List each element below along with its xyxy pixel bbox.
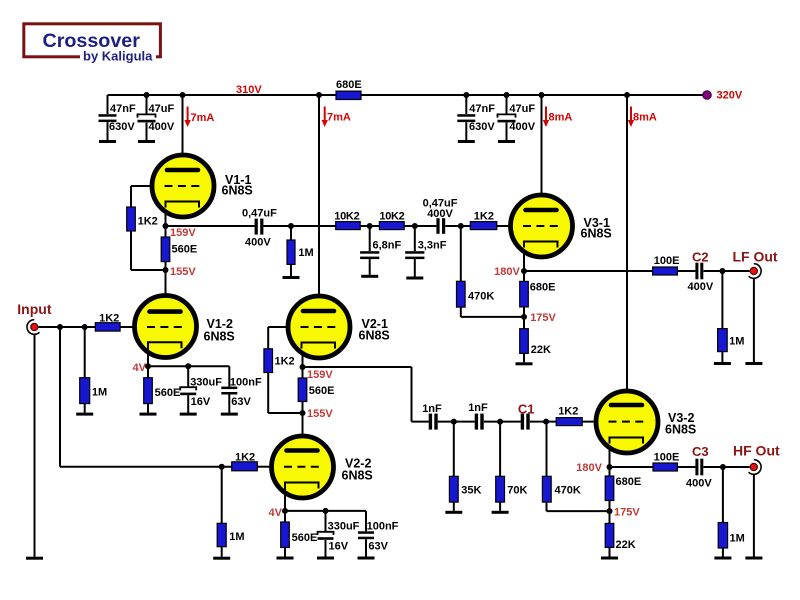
tube V3-1 plate <box>526 208 557 213</box>
capacitor C2 <box>695 263 698 280</box>
capacitor 0,47uF/400V LF <box>255 219 258 235</box>
resistor 1K2 V2-2 grid <box>232 462 258 471</box>
svg-text:180V: 180V <box>576 462 602 474</box>
ground 330uF V1-2 <box>180 413 197 416</box>
svg-text:560E: 560E <box>155 387 181 399</box>
svg-text:47uF: 47uF <box>149 103 175 115</box>
svg-text:3,3nF: 3,3nF <box>418 240 447 252</box>
node 175V V3-2 <box>607 508 613 514</box>
wire LF filter line A <box>263 225 436 227</box>
resistor 470K HF <box>542 476 551 502</box>
wire 330uF V2-2 top lead <box>325 511 327 531</box>
ground 1M V2-2 <box>213 557 230 560</box>
svg-text:1nF: 1nF <box>422 403 442 415</box>
svg-text:C1: C1 <box>518 402 535 417</box>
junction rail/V3-2 <box>624 92 630 98</box>
capacitor 330uF/16V V1-2 <box>180 387 196 390</box>
resistor 70K <box>496 476 505 502</box>
wire 4V V2-2 to caps <box>285 510 366 512</box>
node 155V V1 <box>163 267 169 273</box>
8mA #2 current arrow <box>630 107 632 122</box>
wire input to 1K2 <box>39 326 96 328</box>
svg-text:560E: 560E <box>292 532 318 544</box>
svg-text:310V: 310V <box>236 84 262 96</box>
svg-text:1nF: 1nF <box>468 402 488 414</box>
svg-text:LF Out: LF Out <box>733 249 778 265</box>
svg-text:1K2: 1K2 <box>275 356 295 368</box>
wire 1M LF leads <box>721 271 723 362</box>
svg-text:175V: 175V <box>614 507 640 519</box>
resistor 22K V3-1 <box>520 329 529 354</box>
svg-text:630V: 630V <box>469 121 495 133</box>
junction 70K <box>497 419 503 425</box>
capacitor 1nF #2 <box>475 414 478 430</box>
ground HF Out <box>745 557 762 560</box>
svg-text:8mA: 8mA <box>633 112 657 124</box>
wire 470K V3-1 leads <box>460 226 462 317</box>
resistor 680E V3-2 <box>605 476 614 501</box>
ground 47nF-R <box>458 140 475 143</box>
svg-text:400V: 400V <box>149 121 175 133</box>
wire input bus down <box>59 327 61 467</box>
wire V2-1 grid lead <box>268 326 286 328</box>
ground LF Out <box>745 362 762 365</box>
wire V3-1 cathode / 680E / 22K stack <box>523 242 525 362</box>
svg-text:63V: 63V <box>231 396 251 408</box>
svg-text:6N8S: 6N8S <box>222 184 253 198</box>
tube V1-2 plate <box>150 309 181 314</box>
capacitor 47uF-L 47uF/400V <box>138 114 156 117</box>
wire HF Out shield down <box>753 474 755 556</box>
svg-text:680E: 680E <box>530 282 556 294</box>
junction input/1M <box>82 324 88 330</box>
title box <box>24 24 161 57</box>
node 4V V1-2 <box>145 363 151 369</box>
wire to 155V node V2 <box>268 412 302 414</box>
junction 1M mid <box>288 223 294 229</box>
svg-text:100E: 100E <box>654 452 680 464</box>
svg-text:1M: 1M <box>298 247 313 259</box>
svg-text:630V: 630V <box>109 121 135 133</box>
junction 35K <box>451 419 457 425</box>
wire 1K2 to V2-2 grid <box>257 466 271 468</box>
wire 100nF V2-2 top lead <box>365 511 367 531</box>
wire 3,3nF top lead <box>414 226 416 251</box>
ground 22K V3-2 <box>601 557 618 560</box>
wire 6,8nF top lead <box>369 226 371 251</box>
svg-text:320V: 320V <box>717 90 743 102</box>
capacitor C1 <box>521 414 524 430</box>
resistor 1M V2-2 <box>217 523 226 546</box>
svg-text:330uF: 330uF <box>328 521 360 533</box>
ground 47uF-L <box>138 140 155 143</box>
svg-text:680E: 680E <box>336 79 362 91</box>
junction 330uF V2-2 <box>323 508 329 514</box>
svg-text:70K: 70K <box>507 485 527 497</box>
ground 22K V3-1 <box>516 362 533 365</box>
svg-text:159V: 159V <box>307 369 333 381</box>
tube V3-1 envelope <box>511 195 573 257</box>
wire to V3-1 grid <box>445 225 509 227</box>
tube V2-2 envelope <box>272 436 334 498</box>
wire V2-1 cathode / 560E / V2-2 anode <box>302 342 304 451</box>
HF Out terminal <box>749 460 761 475</box>
ground 35K <box>445 511 462 514</box>
wire 1M input leads <box>84 327 86 413</box>
node 155V V2 <box>300 410 306 416</box>
tube V3-2 cathode <box>610 438 644 444</box>
wire 47uF-L top lead <box>146 95 148 114</box>
tube V1-2 envelope <box>135 296 197 358</box>
node 320V terminal dot <box>703 91 712 100</box>
svg-text:159V: 159V <box>170 227 196 239</box>
svg-text:1K2: 1K2 <box>474 211 494 223</box>
junction rail/V2-1 <box>316 92 322 98</box>
junction rail/47nF-R <box>463 92 469 98</box>
junction rail/V1-1 <box>180 92 186 98</box>
svg-text:175V: 175V <box>530 312 556 324</box>
ground 330uF V2-2 <box>317 557 334 560</box>
ground 47uF-R <box>498 140 515 143</box>
tube V3-1 grid <box>523 225 559 227</box>
wire 1M HF leads <box>722 467 724 557</box>
node 175V V3-1 <box>521 314 527 320</box>
wire 330uF V1-2 bottom lead <box>187 395 189 412</box>
wire V2-2 cathode / 560E <box>284 483 286 557</box>
node 180V V3-1 <box>521 268 527 274</box>
resistor 22K V3-2 <box>605 523 614 547</box>
resistor 1K2 V1-2 grid <box>95 323 120 331</box>
svg-text:4V: 4V <box>269 507 283 519</box>
ground 1M mid <box>283 276 300 279</box>
ground 1M LF <box>714 362 731 365</box>
svg-text:6N8S: 6N8S <box>359 328 390 342</box>
svg-text:63V: 63V <box>368 541 388 553</box>
wire input shield down <box>34 335 36 557</box>
svg-text:1M: 1M <box>92 386 107 398</box>
tube V1-1 grid <box>165 185 201 187</box>
wire V3-1 anode riser <box>541 95 543 210</box>
tube V1-1 cathode <box>166 202 200 208</box>
node 180V V3-2 <box>607 464 613 470</box>
tube V1-1 envelope <box>152 155 214 217</box>
svg-text:560E: 560E <box>172 244 198 256</box>
svg-text:6N8S: 6N8S <box>665 423 696 437</box>
svg-text:HF Out: HF Out <box>733 443 780 459</box>
svg-text:7mA: 7mA <box>191 112 215 124</box>
wire 70K leads <box>499 422 501 511</box>
wire 47nF-L top lead <box>107 95 109 114</box>
junction rail/47uF-R <box>504 92 510 98</box>
svg-text:6,8nF: 6,8nF <box>373 240 402 252</box>
ground 100nF V2-2 <box>358 557 375 560</box>
ground 560E V2-2 <box>277 557 294 560</box>
junction HF 1M <box>720 464 726 470</box>
wire 100nF V2-2 bottom lead <box>365 539 367 556</box>
svg-text:100nF: 100nF <box>230 377 262 389</box>
wire C3 to HF Out <box>704 466 750 468</box>
tube V2-1 envelope <box>288 296 350 358</box>
capacitor 330uF/16V V2-2 <box>318 532 334 535</box>
svg-text:1K2: 1K2 <box>558 406 578 418</box>
svg-text:470K: 470K <box>468 291 494 303</box>
svg-text:7mA: 7mA <box>327 112 351 124</box>
tube V2-1 cathode <box>302 343 336 349</box>
svg-text:1M: 1M <box>729 336 744 348</box>
node 159V V1 <box>163 223 169 229</box>
resistor 1M HF <box>718 523 727 549</box>
input terminal <box>27 320 39 335</box>
wire to 175V node V3-1 <box>461 316 524 318</box>
wire HF filter C <box>484 421 521 423</box>
svg-text:47nF: 47nF <box>110 103 136 115</box>
capacitor 100nF/63V V2-2 <box>358 531 374 534</box>
wire 159V V2 to HF filter <box>303 366 412 368</box>
svg-text:1M: 1M <box>229 531 244 543</box>
capacitor 6,8nF <box>360 251 379 254</box>
resistor 560E V1-2 <box>144 378 153 404</box>
wire to 155V node <box>131 269 166 271</box>
wire V1-1 anode riser <box>182 95 184 170</box>
junction 470K HF <box>543 419 549 425</box>
wire V2-1 anode riser <box>318 95 320 312</box>
wire 47uF-R bottom lead <box>506 123 508 140</box>
ground 3,3nF <box>406 277 423 280</box>
resistor 35K <box>449 476 458 502</box>
svg-text:16V: 16V <box>329 541 349 553</box>
wire 330uF V2-2 bottom lead <box>325 540 327 557</box>
svg-text:330uF: 330uF <box>190 377 222 389</box>
capacitor C3 <box>695 459 698 476</box>
svg-text:6N8S: 6N8S <box>342 469 373 483</box>
junction rail/V3-1 <box>539 92 545 98</box>
resistor 100E HF <box>653 463 677 471</box>
resistor 1K2 V3-2 grid <box>556 418 582 426</box>
resistor 1M mid <box>287 240 295 264</box>
svg-text:4V: 4V <box>133 362 147 374</box>
wire V1-2 cathode / 560E <box>147 342 149 412</box>
resistor 680E V3-1 <box>520 281 529 307</box>
svg-text:47uF: 47uF <box>509 103 535 115</box>
wire 159V to 0,47uF <box>166 225 255 227</box>
junction 470K V3-1 <box>458 223 464 229</box>
tube V3-2 plate <box>611 403 642 408</box>
tube V2-1 plate <box>303 309 334 314</box>
wire 3,3nF bottom lead <box>414 259 416 276</box>
ground 560E V1-2 <box>140 413 157 416</box>
svg-text:1K2: 1K2 <box>235 452 255 464</box>
svg-text:by Kaligula: by Kaligula <box>83 49 153 64</box>
capacitor 47uF-R 47uF/400V <box>498 114 516 117</box>
svg-text:10K2: 10K2 <box>334 211 359 223</box>
wire C2 to LF Out <box>704 270 750 272</box>
svg-text:22K: 22K <box>616 539 636 551</box>
svg-text:400V: 400V <box>509 121 535 133</box>
resistor 10K2 #1 <box>336 222 361 230</box>
svg-text:Input: Input <box>17 301 52 317</box>
wire 1M mid leads <box>290 226 292 276</box>
wire 47uF-L bottom lead <box>146 123 148 140</box>
wire V1-1 grid lead <box>131 185 152 187</box>
wire to V3-2 grid <box>530 421 594 423</box>
junction 3,3nF <box>412 223 418 229</box>
resistor 470K V3-1 <box>457 281 466 307</box>
tube V1-2 grid <box>147 326 183 328</box>
tube V3-1 cathode <box>524 242 558 248</box>
wire 47nF-R top lead <box>465 95 467 114</box>
svg-text:10K2: 10K2 <box>379 211 404 223</box>
wire 1K2 V2-1 vertical <box>267 327 269 413</box>
svg-text:35K: 35K <box>461 485 481 497</box>
svg-text:47nF: 47nF <box>469 103 495 115</box>
junction rail/47uF-L <box>144 92 150 98</box>
svg-text:1K2: 1K2 <box>99 313 119 325</box>
wire LF Out shield down <box>753 278 755 362</box>
tube V2-2 cathode <box>285 483 319 489</box>
svg-text:0,47uF: 0,47uF <box>242 208 277 220</box>
wire HF to 1nF#1 <box>412 421 429 423</box>
svg-text:6N8S: 6N8S <box>581 227 612 241</box>
ground 1M HF <box>714 557 731 560</box>
capacitor 47nF-R 47nF/630V <box>457 114 475 117</box>
svg-text:180V: 180V <box>494 266 520 278</box>
capacitor 3,3nF <box>405 251 424 254</box>
junction 6,8nF <box>367 223 373 229</box>
ground 100nF V1-2 <box>221 413 238 416</box>
tube V2-2 grid <box>284 466 320 468</box>
wire 47nF-L bottom lead <box>107 122 109 140</box>
svg-text:C3: C3 <box>692 444 709 459</box>
wire bus to V2-2 grid <box>60 466 232 468</box>
wire 1M V2-2 leads <box>221 467 223 557</box>
capacitor 47nF-L 47nF/630V <box>99 114 117 117</box>
resistor 560E V2-1 <box>298 378 307 402</box>
resistor 560E V2-2 <box>281 522 290 548</box>
ground input <box>26 557 43 560</box>
wire 100nF V1-2 top lead <box>228 366 230 386</box>
wire to 175V node V3-2 <box>547 510 610 512</box>
tube V1-1 plate <box>167 168 198 173</box>
resistor R 1M input <box>80 378 90 404</box>
title gap behind subtitle <box>80 52 156 61</box>
svg-text:22K: 22K <box>531 344 551 356</box>
resistor 10K2 #2 <box>379 222 404 230</box>
svg-text:155V: 155V <box>170 266 196 278</box>
svg-text:16V: 16V <box>191 396 211 408</box>
wire 470K HF leads <box>546 422 548 512</box>
wire 180V to C3 <box>610 466 696 468</box>
resistor 1M LF <box>718 329 728 352</box>
wire 6,8nF bottom lead <box>369 259 371 275</box>
wire 4V V1-2 to caps <box>148 365 229 367</box>
tube V1-2 cathode <box>148 342 182 348</box>
svg-text:1K2: 1K2 <box>138 216 158 228</box>
wire HF filter B <box>438 421 475 423</box>
ground 1M input <box>76 413 93 416</box>
resistor 1K2 V3-1 grid <box>470 222 497 230</box>
junction 330uF V1-2 <box>185 363 191 369</box>
svg-text:6N8S: 6N8S <box>204 329 235 343</box>
ground 47nF-L <box>99 140 116 143</box>
capacitor 100nF/63V V1-2 <box>221 387 237 390</box>
node 159V V2 <box>300 364 306 370</box>
resistor 1K2 V1-1 grid <box>127 207 136 231</box>
junction input/bus <box>57 324 63 330</box>
svg-text:400V: 400V <box>686 477 712 489</box>
wire 47uF-R top lead <box>506 95 508 114</box>
resistor 560E V1-1 <box>161 237 170 262</box>
svg-text:100E: 100E <box>654 255 680 267</box>
resistor 680E rail <box>336 91 361 99</box>
wire 310V rail <box>108 94 708 96</box>
tube V2-1 grid <box>301 326 337 328</box>
wire V1-1 cathode / 560E / V1-2 anode <box>165 202 167 312</box>
svg-text:1M: 1M <box>730 533 745 545</box>
wire HF feed down <box>411 367 413 422</box>
svg-text:400V: 400V <box>427 208 453 220</box>
wire 35K leads <box>453 422 455 511</box>
node 4V V2-2 <box>282 508 288 514</box>
svg-text:680E: 680E <box>616 476 642 488</box>
wire 100nF V1-2 bottom lead <box>228 395 230 413</box>
svg-text:400V: 400V <box>688 281 714 293</box>
7mA #1 current arrow <box>187 107 189 122</box>
wire 47nF-R bottom lead <box>465 122 467 140</box>
svg-text:C2: C2 <box>692 250 709 265</box>
tube V3-2 envelope <box>596 391 658 453</box>
resistor 1K2 V2-1 grid <box>264 349 273 373</box>
capacitor 1nF #1 <box>429 414 432 430</box>
8mA #1 current arrow <box>545 107 547 122</box>
svg-text:560E: 560E <box>309 385 335 397</box>
wire 1K2 V1-1 vertical <box>130 186 132 270</box>
wire 1K2 to V1-2 grid <box>120 326 134 328</box>
LF Out terminal <box>749 264 761 279</box>
svg-text:400V: 400V <box>245 237 271 249</box>
svg-text:470K: 470K <box>555 485 581 497</box>
ground 6,8nF <box>361 275 378 278</box>
ground 70K <box>492 511 509 514</box>
wire 330uF V1-2 top lead <box>187 366 189 386</box>
resistor 100E LF <box>653 267 678 275</box>
tube V2-2 plate <box>287 448 318 453</box>
svg-text:155V: 155V <box>307 408 333 420</box>
wire 180V to C2 <box>524 270 695 272</box>
capacitor 0,47uF/400V #2 <box>436 218 439 234</box>
7mA #2 current arrow <box>324 107 326 122</box>
junction bus/1M V2-2 <box>219 464 225 470</box>
wire V3-2 cathode / 680E / 22K stack <box>609 436 611 557</box>
tube V3-2 grid <box>609 421 645 423</box>
wire V3-2 anode riser <box>626 95 628 405</box>
svg-text:100nF: 100nF <box>367 521 399 533</box>
svg-text:8mA: 8mA <box>549 112 573 124</box>
junction LF 1M <box>719 268 725 274</box>
